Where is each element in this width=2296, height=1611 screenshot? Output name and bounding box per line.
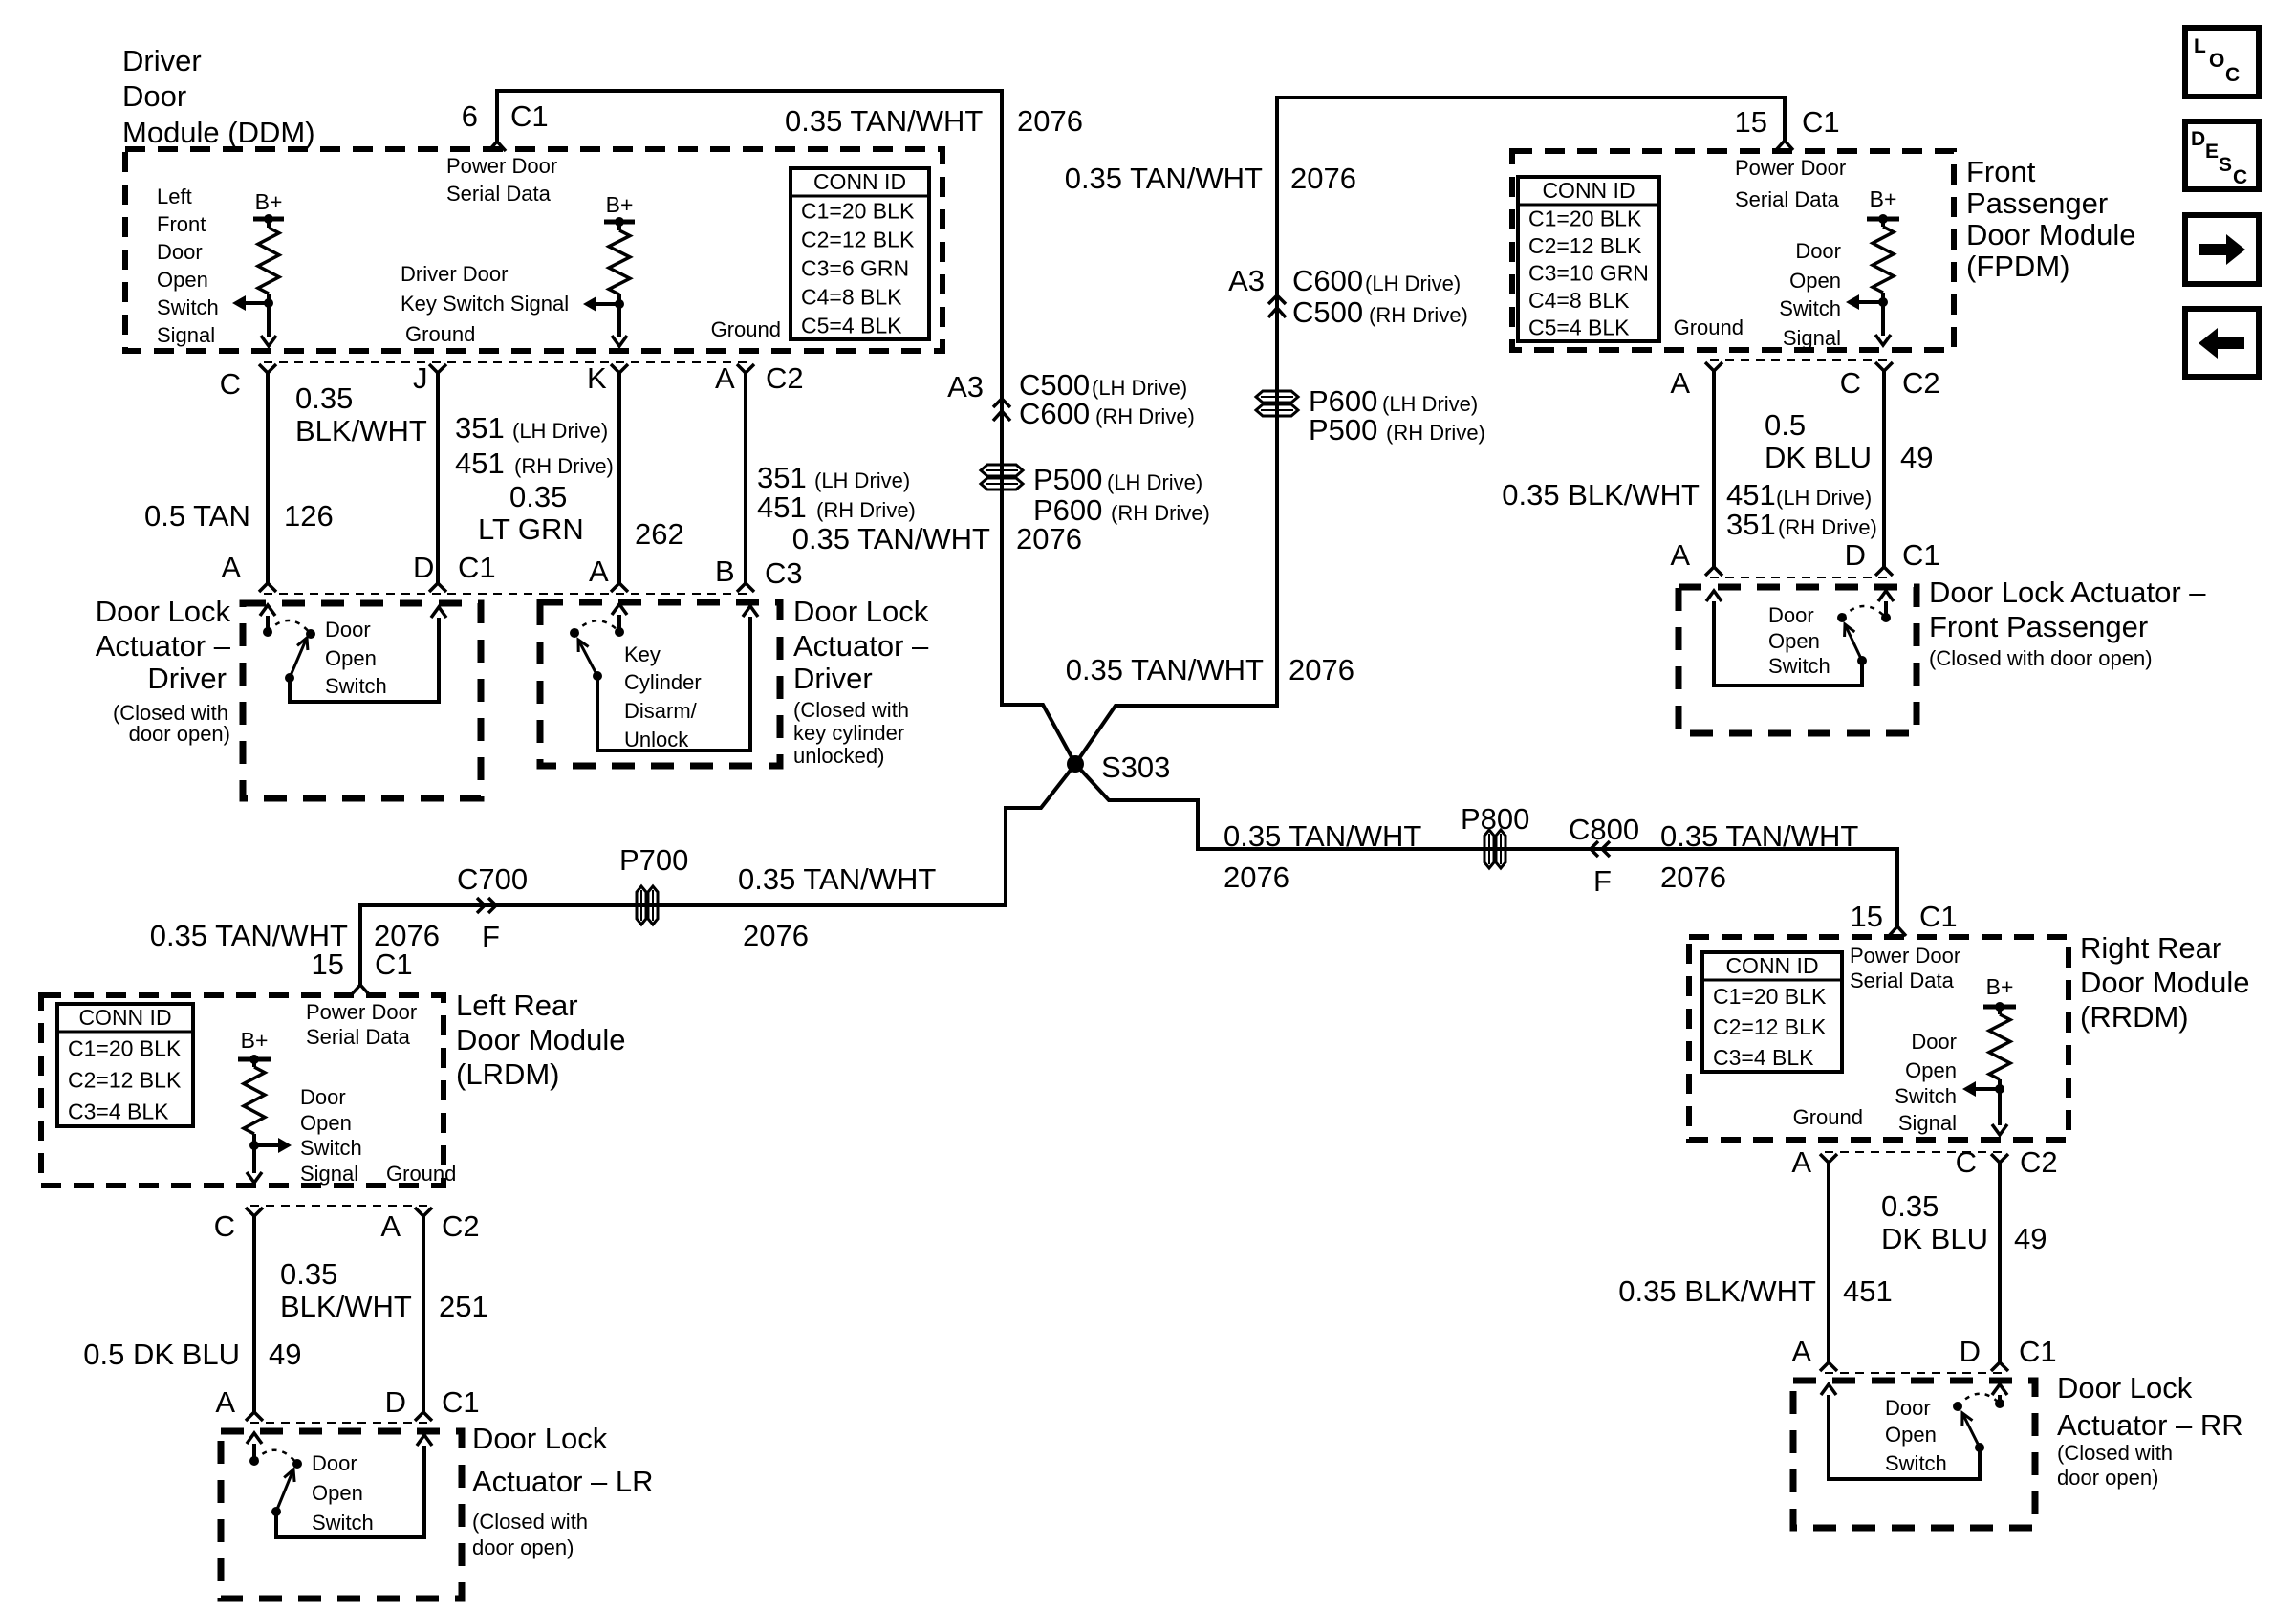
connector box FPDM C1/C2 <box>1710 360 1889 577</box>
svg-text:Signal: Signal <box>1783 326 1841 350</box>
svg-text:49: 49 <box>1900 441 1933 474</box>
svg-text:C1=20 BLK: C1=20 BLK <box>1528 206 1642 230</box>
svg-text:Power Door: Power Door <box>446 154 557 178</box>
label Door Lock Actuator RR <box>2057 1371 2243 1490</box>
svg-text:(Closed with door open): (Closed with door open) <box>1929 646 2153 670</box>
svg-text:Door: Door <box>1768 603 1814 627</box>
svg-text:2076: 2076 <box>1017 104 1083 138</box>
svg-text:Open: Open <box>300 1111 352 1135</box>
node DDM key-switch-signal arrow <box>583 296 627 346</box>
svg-text:(LH Drive): (LH Drive) <box>1776 486 1872 510</box>
svg-text:2076: 2076 <box>743 919 809 952</box>
svg-text:(RH Drive): (RH Drive) <box>816 498 916 522</box>
svg-text:C3=10 GRN: C3=10 GRN <box>1528 261 1649 286</box>
svg-text:Left: Left <box>157 185 192 208</box>
svg-text:C2: C2 <box>766 361 804 395</box>
component box Door Lock Actuator Driver <box>243 603 481 798</box>
svg-text:A: A <box>1670 538 1690 572</box>
connector C500/C600 in-line A3 <box>947 368 1195 430</box>
svg-text:C: C <box>1840 366 1861 400</box>
svg-text:451: 451 <box>1843 1274 1893 1308</box>
svg-text:0.35 BLK/WHT: 0.35 BLK/WHT <box>1618 1274 1816 1308</box>
pin letters bottom row LRDM connector <box>215 1385 479 1419</box>
svg-text:O: O <box>2209 50 2224 72</box>
label circuit 451/351 (FPDM) <box>1726 478 1877 541</box>
B+ node RRDM <box>1983 974 2016 1012</box>
wire DDM pin J to actuator pin D (0.35 BLK/WHT) <box>429 364 446 592</box>
svg-text:C1: C1 <box>458 551 496 584</box>
module FPDM box <box>1512 151 1954 350</box>
label wire 0.35 TAN/WHT 2076 (right of C800) <box>1660 819 1858 894</box>
label Door Open Switch (RR actuator) <box>1885 1396 1947 1475</box>
svg-text:351: 351 <box>455 411 505 445</box>
wire serial data junction S303 to LRDM pin 15 (0.35 TAN/WHT 2076) <box>352 764 1075 994</box>
connector P500/P600 pass-through <box>981 463 1210 527</box>
svg-text:B+: B+ <box>1986 974 2014 999</box>
svg-text:(Closed with: (Closed with <box>793 698 909 722</box>
svg-text:C: C <box>2233 166 2247 188</box>
pin letters bottom row DDM connector <box>221 551 802 590</box>
svg-text:0.5: 0.5 <box>1765 408 1806 442</box>
svg-text:Front: Front <box>157 212 206 236</box>
svg-text:(Closed with: (Closed with <box>2057 1441 2173 1465</box>
svg-text:Ground: Ground <box>405 322 475 346</box>
pin letters bottom row FPDM connector <box>1670 538 1939 572</box>
svg-text:C2=12 BLK: C2=12 BLK <box>801 227 915 251</box>
label wire 0.35 TAN/WHT 2076 (above S303) <box>1066 653 1354 686</box>
label wire 0.35 BLK/WHT (C-A) <box>295 381 427 447</box>
connector box LRDM C1/C2 <box>250 1206 428 1423</box>
connector P600/P500 pass-through <box>1256 384 1485 446</box>
svg-text:D: D <box>385 1385 406 1419</box>
svg-text:Disarm/: Disarm/ <box>624 699 698 723</box>
svg-text:Switch: Switch <box>157 295 219 319</box>
svg-text:Signal: Signal <box>300 1162 358 1186</box>
svg-text:C1=20 BLK: C1=20 BLK <box>1713 984 1827 1009</box>
svg-text:C5=4 BLK: C5=4 BLK <box>1528 316 1630 340</box>
svg-text:Serial Data: Serial Data <box>1850 969 1955 992</box>
label Ground (LRDM) <box>386 1162 456 1186</box>
svg-text:Open: Open <box>1789 269 1841 293</box>
svg-text:(LH Drive): (LH Drive) <box>1107 470 1202 494</box>
svg-text:C: C <box>214 1209 235 1243</box>
svg-text:C1: C1 <box>510 99 549 133</box>
svg-text:J: J <box>413 361 428 395</box>
svg-text:(RH Drive): (RH Drive) <box>1778 515 1877 539</box>
svg-text:(LH Drive): (LH Drive) <box>1092 376 1187 400</box>
svg-text:C2: C2 <box>2020 1145 2058 1179</box>
svg-text:B: B <box>715 555 735 588</box>
svg-text:(RH Drive): (RH Drive) <box>1386 421 1485 445</box>
svg-text:F: F <box>482 920 500 953</box>
svg-text:Key Switch Signal: Key Switch Signal <box>401 292 569 316</box>
svg-text:351: 351 <box>757 461 807 494</box>
svg-text:351: 351 <box>1726 508 1776 541</box>
switch Door Open (RR actuator) <box>1821 1384 2007 1479</box>
svg-text:CONN ID: CONN ID <box>813 169 906 194</box>
svg-text:BLK/WHT: BLK/WHT <box>295 414 427 447</box>
svg-text:C1=20 BLK: C1=20 BLK <box>68 1036 182 1061</box>
svg-text:C2=12 BLK: C2=12 BLK <box>68 1068 182 1093</box>
svg-text:(LH Drive): (LH Drive) <box>512 419 608 443</box>
svg-text:0.5 TAN: 0.5 TAN <box>144 499 250 533</box>
svg-text:49: 49 <box>2014 1222 2047 1255</box>
svg-text:0.35 TAN/WHT: 0.35 TAN/WHT <box>738 862 936 896</box>
svg-text:(RH Drive): (RH Drive) <box>1095 404 1195 428</box>
svg-text:Right Rear: Right Rear <box>2080 931 2221 965</box>
label Ground (DDM right) <box>711 317 781 341</box>
svg-text:15: 15 <box>1851 900 1883 933</box>
switch Key Cylinder Disarm/Unlock <box>570 604 758 751</box>
pin letters top row LRDM connector <box>214 1209 480 1243</box>
wire DDM pin K to key-cylinder pin A (0.35 LT GRN 262) <box>611 364 628 592</box>
svg-text:Door: Door <box>300 1085 346 1109</box>
label Power Door Serial Data (FPDM) <box>1735 156 1846 211</box>
resistor LRDM door-open-switch pullup <box>244 1059 265 1145</box>
svg-text:(RH Drive): (RH Drive) <box>1111 501 1210 525</box>
svg-text:Door Lock Actuator –: Door Lock Actuator – <box>1929 576 2206 609</box>
svg-text:2076: 2076 <box>1660 860 1726 894</box>
wire FPDM pin A to actuator pin A (0.35 BLK/WHT 451/351) <box>1705 362 1722 576</box>
svg-text:Serial Data: Serial Data <box>446 182 552 206</box>
label wire 0.5 DK BLU 49 (FPDM) <box>1765 408 1933 474</box>
pin letters bottom row RRDM connector <box>1791 1335 2056 1368</box>
svg-text:Open: Open <box>325 646 377 670</box>
label wire 0.35 TAN/WHT 2076 (right of P700) <box>738 862 936 952</box>
svg-text:Actuator – RR: Actuator – RR <box>2057 1408 2243 1442</box>
label Door Open Switch (LR actuator) <box>312 1451 374 1535</box>
label Power Door Serial Data (DDM) <box>446 154 557 206</box>
svg-text:B+: B+ <box>241 1028 269 1053</box>
node LRDM switch-signal arrow <box>247 1138 292 1183</box>
svg-text:(RH Drive): (RH Drive) <box>1369 303 1468 327</box>
svg-text:C: C <box>2225 64 2240 86</box>
svg-text:C1: C1 <box>442 1385 480 1419</box>
label wire 0.35 LT GRN 262 <box>478 480 684 551</box>
wire FPDM pin C/C2 to actuator pin D (0.5 DK BLU 49) <box>1875 362 1893 576</box>
svg-text:(LH Drive): (LH Drive) <box>1365 272 1461 295</box>
svg-text:Open: Open <box>312 1481 363 1505</box>
conn-id table LRDM <box>57 1004 193 1126</box>
B+ node DDM right <box>604 192 635 227</box>
svg-text:Ground: Ground <box>386 1162 456 1186</box>
svg-text:Module (DDM): Module (DDM) <box>122 116 315 149</box>
label Door Lock Actuator Driver <box>96 595 231 746</box>
wire LRDM pin C to actuator pin A (0.5 DK BLU 49) <box>246 1208 263 1421</box>
svg-text:Power Door: Power Door <box>1850 944 1960 968</box>
svg-text:S303: S303 <box>1101 751 1170 784</box>
component box Door Lock Actuator LR <box>221 1431 462 1599</box>
svg-text:(LH Drive): (LH Drive) <box>1382 392 1478 416</box>
connector P700 pass-through <box>619 843 688 925</box>
svg-text:B+: B+ <box>1870 186 1897 211</box>
svg-text:door open): door open) <box>2057 1466 2158 1490</box>
svg-text:(RRDM): (RRDM) <box>2080 1000 2189 1034</box>
B+ node LRDM <box>238 1028 271 1064</box>
svg-text:D: D <box>413 551 434 584</box>
svg-text:262: 262 <box>635 517 684 551</box>
svg-text:(Closed with: (Closed with <box>472 1510 588 1534</box>
svg-text:unlocked): unlocked) <box>793 744 884 768</box>
svg-text:D: D <box>1845 538 1866 572</box>
module LRDM box <box>41 995 444 1186</box>
svg-text:C1: C1 <box>1802 105 1840 139</box>
svg-text:Door: Door <box>122 79 186 113</box>
splice S303 <box>1067 751 1170 784</box>
svg-text:Signal: Signal <box>1898 1111 1957 1135</box>
pin letters top row RRDM connector <box>1791 1145 2057 1179</box>
svg-text:CONN ID: CONN ID <box>78 1005 171 1030</box>
svg-text:C1: C1 <box>1902 538 1940 572</box>
svg-text:key cylinder: key cylinder <box>793 721 904 745</box>
svg-text:C2=12 BLK: C2=12 BLK <box>1713 1014 1827 1039</box>
svg-text:Door Module: Door Module <box>456 1023 625 1056</box>
pin 6 C1 label (DDM) <box>462 99 549 133</box>
svg-text:Switch: Switch <box>1895 1084 1957 1108</box>
svg-text:Door Lock: Door Lock <box>793 595 929 628</box>
module DDM box <box>125 149 942 351</box>
svg-text:P500: P500 <box>1033 463 1102 496</box>
svg-text:Switch: Switch <box>325 674 387 698</box>
label Key Cylinder Disarm/Unlock switch <box>624 642 702 751</box>
svg-text:(FPDM): (FPDM) <box>1966 250 2069 283</box>
svg-text:Ground: Ground <box>1793 1105 1863 1129</box>
svg-text:Driver: Driver <box>793 662 873 695</box>
svg-text:C600: C600 <box>1292 264 1363 297</box>
pin letters top row FPDM connector <box>1670 366 1939 400</box>
svg-text:(LRDM): (LRDM) <box>456 1057 560 1091</box>
module FPDM title <box>1966 155 2135 283</box>
svg-text:C3=4 BLK: C3=4 BLK <box>1713 1045 1814 1070</box>
svg-text:Unlock: Unlock <box>624 728 689 751</box>
label Ground (RRDM) <box>1793 1105 1863 1129</box>
svg-text:C2: C2 <box>442 1209 480 1243</box>
svg-text:Open: Open <box>1885 1423 1937 1447</box>
module DDM title <box>122 44 315 149</box>
svg-text:0.35 TAN/WHT: 0.35 TAN/WHT <box>785 104 983 138</box>
svg-text:A: A <box>1670 366 1690 400</box>
label wire 0.35 BLK/WHT (FPDM) <box>1502 478 1700 512</box>
svg-text:C2=12 BLK: C2=12 BLK <box>1528 233 1642 258</box>
svg-text:A3: A3 <box>947 370 984 403</box>
svg-text:Door: Door <box>1911 1030 1957 1054</box>
svg-text:A: A <box>715 361 735 395</box>
label wire 0.35 TAN/WHT 2076 (FPDM top) <box>1065 162 1356 195</box>
svg-text:CONN ID: CONN ID <box>1725 953 1818 978</box>
label wire 0.35 BLK/WHT 451 (RRDM) <box>1618 1274 1892 1308</box>
label circuit 351/451 (J-D) <box>455 411 614 480</box>
connector box RRDM C1/C2 <box>1825 1152 2004 1373</box>
module RRDM box <box>1689 937 2069 1140</box>
svg-text:K: K <box>587 361 607 395</box>
svg-text:D: D <box>2191 128 2205 150</box>
label Power Door Serial Data (LRDM) <box>306 1000 417 1049</box>
svg-text:door open): door open) <box>129 722 230 746</box>
svg-text:Open: Open <box>1905 1058 1957 1082</box>
svg-text:126: 126 <box>284 499 334 533</box>
label wire 0.35 DK BLU 49 (RRDM) <box>1881 1189 2047 1255</box>
svg-text:C800: C800 <box>1569 813 1639 846</box>
svg-text:15: 15 <box>1735 105 1767 139</box>
svg-text:Door Lock: Door Lock <box>96 595 231 628</box>
svg-text:Door Module: Door Module <box>1966 218 2135 251</box>
wire RRDM pin A to actuator pin A (0.35 BLK/WHT 451) <box>1820 1154 1837 1371</box>
svg-text:Front Passenger: Front Passenger <box>1929 610 2148 643</box>
svg-text:C700: C700 <box>457 862 528 896</box>
wire DDM pin A/C2 to key-cylinder pin B (0.35 BLK/WHT) <box>737 364 754 592</box>
svg-text:6: 6 <box>462 99 478 133</box>
svg-text:Open: Open <box>1768 629 1820 653</box>
label Power Door Serial Data (RRDM) <box>1850 944 1960 992</box>
wire LRDM pin A/C2 to actuator pin D (0.35 BLK/WHT 251) <box>415 1208 432 1421</box>
conn-id table FPDM <box>1518 177 1659 341</box>
pin 15 C1 label (FPDM) <box>1735 105 1840 139</box>
icon next-page arrow button <box>2185 215 2259 284</box>
svg-text:Left Rear: Left Rear <box>456 989 578 1022</box>
switch Door Open (front passenger actuator) <box>1706 591 1894 686</box>
connector box DDM C1/C2/C3 <box>264 362 750 594</box>
conn-id table DDM <box>791 168 929 339</box>
svg-text:451: 451 <box>455 446 505 480</box>
svg-text:LT GRN: LT GRN <box>478 512 584 546</box>
label wire 0.35 TAN/WHT 2076 (left of P800) <box>1224 819 1421 894</box>
module LRDM title <box>456 989 625 1091</box>
svg-text:Open: Open <box>157 268 208 292</box>
label wire 0.5 TAN 126 <box>144 499 334 533</box>
resistor DDM left door-open-switch pullup <box>258 219 279 303</box>
svg-text:A: A <box>1791 1335 1811 1368</box>
svg-text:C5=4 BLK: C5=4 BLK <box>801 313 902 337</box>
svg-text:A: A <box>1791 1145 1811 1179</box>
label Door Lock Actuator LR <box>472 1422 654 1559</box>
svg-text:C2: C2 <box>1902 366 1940 400</box>
component box Door Lock Actuator Driver key-cylinder <box>540 602 780 766</box>
svg-text:A3: A3 <box>1228 264 1265 297</box>
svg-text:F: F <box>1593 864 1612 898</box>
pin 15 C1 label (RRDM) <box>1851 900 1958 933</box>
svg-text:Switch: Switch <box>1779 296 1841 320</box>
svg-text:2076: 2076 <box>1289 653 1354 686</box>
svg-text:451: 451 <box>1726 478 1776 512</box>
pin 15 C1 label (LRDM) <box>312 947 413 981</box>
svg-text:DK BLU: DK BLU <box>1765 441 1872 474</box>
label Left Front Door Open Switch Signal (DDM) <box>157 185 219 347</box>
label Door Open Switch (driver actuator) <box>325 618 387 698</box>
icon LOC button <box>2185 28 2259 97</box>
svg-text:Ground: Ground <box>711 317 781 341</box>
svg-text:A: A <box>215 1385 235 1419</box>
svg-text:Driver Door: Driver Door <box>401 262 508 286</box>
wire DDM pin C to actuator pin A (0.5 TAN 126) <box>259 364 276 592</box>
svg-text:Power Door: Power Door <box>306 1000 417 1024</box>
svg-text:C4=8 BLK: C4=8 BLK <box>1528 288 1630 313</box>
connector C700 in-line F <box>457 862 528 953</box>
svg-text:Actuator –: Actuator – <box>793 629 929 663</box>
B+ node FPDM <box>1867 186 1899 224</box>
conn-id table RRDM <box>1702 952 1842 1072</box>
svg-text:0.35: 0.35 <box>295 381 353 415</box>
svg-text:C1: C1 <box>2019 1335 2057 1368</box>
svg-text:Front: Front <box>1966 155 2036 188</box>
svg-text:Door Lock: Door Lock <box>472 1422 608 1455</box>
B+ node DDM left <box>253 189 284 224</box>
svg-text:Key: Key <box>624 642 661 666</box>
svg-text:0.35: 0.35 <box>1881 1189 1939 1223</box>
svg-text:Serial Data: Serial Data <box>1735 187 1840 211</box>
svg-text:0.35: 0.35 <box>280 1257 337 1291</box>
label circuit 351/451 (A-B) <box>757 461 916 524</box>
svg-text:C4=8 BLK: C4=8 BLK <box>801 284 902 309</box>
svg-text:B+: B+ <box>606 192 634 217</box>
svg-text:2076: 2076 <box>1224 860 1289 894</box>
svg-text:Driver: Driver <box>122 44 202 77</box>
svg-text:2076: 2076 <box>1290 162 1356 195</box>
svg-text:0.35 BLK/WHT: 0.35 BLK/WHT <box>1502 478 1700 512</box>
wire serial data DDM pin 6 to junction S303 (0.35 TAN/WHT 2076) <box>488 91 1075 764</box>
label Door Lock Actuator Driver (key cylinder) <box>793 595 929 768</box>
label Door Lock Actuator Front Passenger <box>1929 576 2206 670</box>
svg-text:C1: C1 <box>1919 900 1958 933</box>
node RRDM switch-signal arrow <box>1962 1081 2007 1135</box>
svg-text:0.5 DK BLU: 0.5 DK BLU <box>83 1338 240 1371</box>
svg-text:P800: P800 <box>1461 802 1529 836</box>
svg-text:0.35 TAN/WHT: 0.35 TAN/WHT <box>1065 162 1263 195</box>
svg-text:Power Door: Power Door <box>1735 156 1846 180</box>
svg-text:49: 49 <box>269 1338 301 1371</box>
svg-text:Switch: Switch <box>1885 1451 1947 1475</box>
svg-text:DK BLU: DK BLU <box>1881 1222 1988 1255</box>
svg-text:P700: P700 <box>619 843 688 877</box>
connector P800 pass-through <box>1461 802 1529 868</box>
label Door Open Switch (front passenger actuator) <box>1768 603 1830 678</box>
component box Door Lock Actuator RR <box>1793 1381 2035 1528</box>
label Door Open Switch Signal (FPDM) <box>1779 239 1841 350</box>
svg-text:Signal: Signal <box>157 323 215 347</box>
svg-text:E: E <box>2205 141 2219 163</box>
svg-text:C3=4 BLK: C3=4 BLK <box>68 1099 169 1124</box>
svg-text:B+: B+ <box>255 189 283 214</box>
svg-text:0.35 TAN/WHT: 0.35 TAN/WHT <box>1224 819 1421 853</box>
label wire 0.35 TAN/WHT 2076 (DDM top) <box>785 104 1083 138</box>
svg-text:C3: C3 <box>765 556 803 590</box>
svg-text:0.35 TAN/WHT: 0.35 TAN/WHT <box>1660 819 1858 853</box>
svg-text:L: L <box>2194 35 2206 57</box>
label Ground (FPDM) <box>1674 316 1744 339</box>
svg-text:Switch: Switch <box>1768 654 1830 678</box>
svg-text:Door: Door <box>157 240 203 264</box>
svg-text:C600: C600 <box>1019 397 1090 430</box>
svg-text:A: A <box>380 1209 401 1243</box>
icon DESC button <box>2185 121 2259 189</box>
svg-text:C1: C1 <box>375 947 413 981</box>
svg-text:Driver: Driver <box>147 662 227 695</box>
resistor FPDM door-open-switch pullup <box>1873 219 1894 302</box>
component box Door Lock Actuator Front Passenger <box>1679 587 1917 733</box>
svg-text:Door: Door <box>1795 239 1841 263</box>
svg-text:D: D <box>1960 1335 1981 1368</box>
svg-text:(LH Drive): (LH Drive) <box>814 468 910 492</box>
svg-text:Door: Door <box>325 618 371 642</box>
svg-text:Switch: Switch <box>300 1136 362 1160</box>
svg-text:S: S <box>2219 154 2232 176</box>
svg-text:(RH Drive): (RH Drive) <box>514 454 614 478</box>
svg-text:C: C <box>1956 1145 1977 1179</box>
svg-text:C500: C500 <box>1292 295 1363 329</box>
connector C600/C500 in-line A3 <box>1228 264 1468 329</box>
svg-text:251: 251 <box>439 1290 488 1323</box>
svg-text:0.35: 0.35 <box>509 480 567 513</box>
svg-text:C1=20 BLK: C1=20 BLK <box>801 198 915 223</box>
